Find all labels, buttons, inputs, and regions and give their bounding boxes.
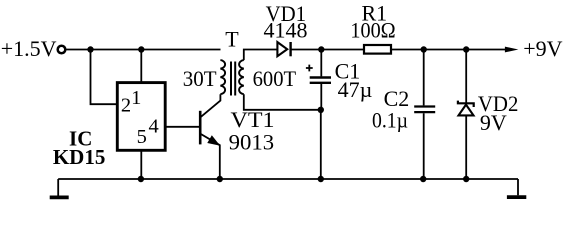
- junction dot A (pin2 branch): [87, 46, 93, 52]
- svg-text:4: 4: [148, 115, 158, 137]
- zener diode VD2 cathode bar: [458, 101, 474, 107]
- wire IC pin 4 to transistor base: [165, 126, 200, 128]
- svg-text:4148: 4148: [264, 17, 308, 42]
- svg-text:600T: 600T: [253, 66, 297, 91]
- junction dot on rail below C2: [420, 176, 426, 182]
- wire R1 to output arrow: [391, 49, 506, 51]
- transformer T secondary winding 600T: [239, 60, 244, 94]
- junction dot on rail below VD2: [463, 176, 469, 182]
- wire junction down to VD2: [465, 50, 467, 104]
- output arrow +9V: [505, 47, 519, 53]
- capacitor C2 top plate: [414, 105, 435, 107]
- transistor VT1 emitter lead: [200, 134, 220, 179]
- wire IC pin 5 down to ground rail: [140, 150, 142, 179]
- wire junction down to C1: [320, 50, 322, 77]
- junction dot secondary bottom / C1: [318, 107, 324, 113]
- svg-text:+9V: +9V: [523, 36, 562, 61]
- transistor VT1 emitter arrow: [208, 136, 219, 145]
- junction dot emitter on rail: [217, 176, 223, 182]
- junction dot VD2 top: [463, 46, 469, 52]
- transistor Q1 VT1 base bar: [199, 111, 202, 145]
- svg-text:1: 1: [131, 87, 141, 109]
- resistor R1 body: [364, 45, 391, 54]
- wire diode cathode to R1: [291, 49, 364, 51]
- diode VD1 triangle: [277, 42, 287, 56]
- svg-text:9013: 9013: [229, 129, 275, 154]
- transistor VT1 collector lead: [200, 94, 220, 117]
- svg-text:0.1µ: 0.1µ: [372, 107, 408, 132]
- ground left: [50, 195, 69, 199]
- junction dot pin5 on rail: [138, 176, 144, 182]
- wire C1 bottom down to secondary-bottom node: [320, 84, 322, 110]
- diode VD1 cathode bar: [289, 42, 291, 56]
- svg-text:30T: 30T: [183, 66, 217, 91]
- zener diode VD2 triangle: [459, 105, 474, 116]
- wire junction down to C2: [423, 50, 425, 106]
- terminal +1.5V input: [58, 46, 66, 54]
- svg-text:+1.5V: +1.5V: [1, 36, 57, 61]
- wire top rail from terminal to transformer primary: [66, 49, 221, 51]
- wire left ground drop: [57, 179, 59, 196]
- wire node down to ground rail: [320, 110, 322, 179]
- capacitor C1 polarity plus sign: [306, 65, 313, 72]
- svg-text:T: T: [225, 27, 239, 52]
- svg-text:KD15: KD15: [53, 145, 106, 169]
- svg-text:47µ: 47µ: [338, 77, 373, 102]
- junction dot C2 top: [421, 46, 427, 52]
- wire secondary bottom to C1 node: [244, 94, 321, 110]
- ground right: [507, 195, 526, 199]
- wire ground rail: [58, 178, 518, 180]
- wire from junction B down to IC pin 1: [140, 50, 142, 83]
- wire VD2 anode to ground rail: [465, 116, 467, 180]
- svg-text:5: 5: [137, 126, 147, 148]
- junction dot B (pin1 branch): [138, 46, 144, 52]
- transformer T primary winding 30T: [220, 60, 225, 94]
- transformer core bars: [230, 62, 232, 96]
- svg-text:VT1: VT1: [231, 107, 275, 132]
- op-amp U1 IC box: [117, 83, 165, 151]
- capacitor C1 bottom plate: [310, 82, 331, 84]
- svg-text:2: 2: [121, 95, 131, 117]
- junction dot C1 top: [318, 46, 324, 52]
- wire secondary top to diode VD1: [244, 50, 278, 61]
- capacitor C2 bottom plate: [414, 111, 435, 113]
- wire from junction A down to IC pin 2: [91, 50, 119, 105]
- svg-text:9V: 9V: [480, 110, 507, 135]
- svg-text:100Ω: 100Ω: [350, 17, 395, 42]
- junction dot on rail below C1: [318, 176, 324, 182]
- wire C2 bottom to ground rail: [423, 113, 425, 179]
- wire right ground drop: [517, 179, 519, 195]
- capacitor C1 top plate: [310, 76, 331, 78]
